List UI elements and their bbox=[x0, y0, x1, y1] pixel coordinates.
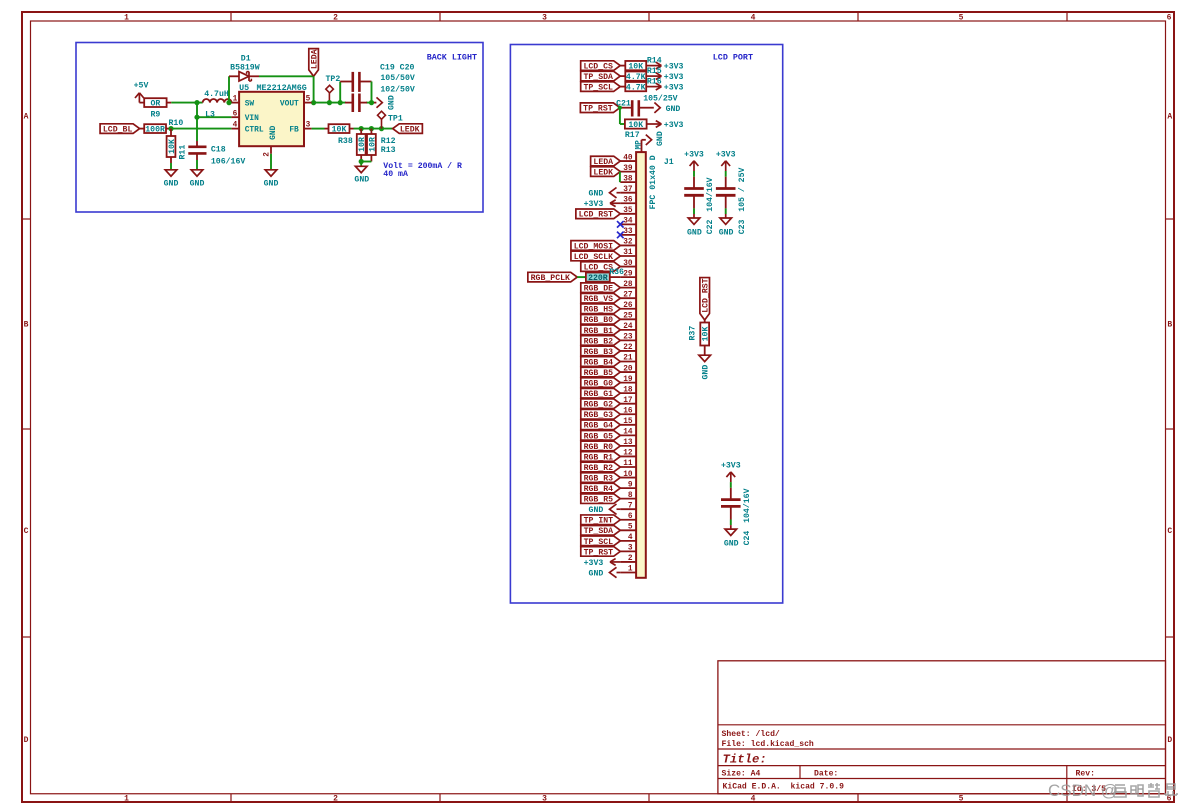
resistor R13 bbox=[370, 129, 372, 134]
power flag +3V3 bbox=[656, 62, 662, 65]
ground under C24 bbox=[725, 529, 737, 535]
hierarchical label TP_SCL bbox=[581, 536, 621, 546]
svg-text:RGB_G3: RGB_G3 bbox=[584, 411, 614, 420]
wire C19 branch bbox=[339, 82, 341, 103]
junction bbox=[327, 100, 332, 105]
pin 25 of J1 bbox=[620, 318, 636, 320]
svg-text:ME2212AM6G: ME2212AM6G bbox=[257, 83, 307, 93]
resistor R16 bbox=[625, 82, 646, 91]
svg-text:C19 C20: C19 C20 bbox=[380, 63, 414, 72]
svg-text:10R: 10R bbox=[368, 137, 377, 152]
svg-text:C: C bbox=[1167, 527, 1172, 536]
svg-text:R12: R12 bbox=[381, 137, 396, 146]
svg-text:7: 7 bbox=[628, 502, 633, 510]
wire bbox=[725, 171, 727, 177]
pin 19 of J1 bbox=[620, 382, 636, 384]
wire U5 GND bbox=[270, 154, 272, 170]
no-connect X bbox=[617, 232, 624, 239]
capacitor C21 bbox=[620, 107, 632, 109]
junction bbox=[359, 159, 364, 164]
pin 5 of J1 bbox=[620, 529, 636, 531]
svg-text:+3V3: +3V3 bbox=[716, 150, 736, 159]
hierarchical label RGB_B4 bbox=[581, 357, 621, 367]
svg-text:18: 18 bbox=[623, 386, 633, 394]
pin 10 of J1 bbox=[620, 477, 636, 479]
svg-text:12: 12 bbox=[623, 450, 633, 458]
svg-text:RGB_R1: RGB_R1 bbox=[584, 453, 614, 462]
pin 9 of J1 bbox=[620, 487, 636, 489]
svg-text:13: 13 bbox=[623, 439, 633, 447]
svg-text:+3V3: +3V3 bbox=[721, 461, 741, 470]
svg-text:TP_SDA: TP_SDA bbox=[584, 527, 614, 536]
svg-text:R36: R36 bbox=[609, 268, 624, 277]
resistor R15 bbox=[625, 71, 646, 80]
pin 24 of J1 bbox=[620, 329, 636, 331]
svg-text:37: 37 bbox=[623, 186, 633, 194]
svg-text:106/16V: 106/16V bbox=[211, 156, 245, 166]
svg-text:6: 6 bbox=[1167, 14, 1172, 23]
svg-text:104/16V: 104/16V bbox=[742, 488, 752, 522]
sheet LCD PORT box bbox=[510, 45, 782, 604]
hierarchical label LCD_RST (vertical) bbox=[700, 278, 710, 320]
wire bbox=[620, 75, 625, 77]
pin 26 of J1 bbox=[620, 308, 636, 310]
svg-text:GND: GND bbox=[190, 180, 205, 189]
hierarchical label LEDK bbox=[591, 167, 621, 177]
hierarchical label RGB_G0 bbox=[581, 378, 621, 388]
pin 38 of J1 bbox=[620, 181, 636, 183]
ground under C22 bbox=[688, 218, 700, 224]
hierarchical label RGB_G4 bbox=[581, 420, 621, 430]
svg-text:Date:: Date: bbox=[814, 770, 838, 779]
svg-text:B5819W: B5819W bbox=[230, 63, 260, 72]
power flag GND bbox=[610, 188, 617, 198]
hierarchical label RGB_B2 bbox=[581, 336, 621, 346]
hierarchical label LEDA bbox=[591, 156, 621, 166]
svg-text:D: D bbox=[24, 736, 29, 745]
svg-text:U5: U5 bbox=[239, 83, 249, 93]
resistor R9 bbox=[144, 98, 166, 107]
svg-text:RGB_VS: RGB_VS bbox=[584, 295, 614, 304]
pin 20 of J1 bbox=[620, 371, 636, 373]
svg-text:33: 33 bbox=[623, 228, 633, 236]
svg-text:KiCad E.D.A. kicad 7.0.9: KiCad E.D.A. kicad 7.0.9 bbox=[723, 783, 845, 792]
svg-text:+3V3: +3V3 bbox=[664, 73, 684, 82]
junction bbox=[194, 100, 199, 105]
pin 40 of J1 bbox=[620, 160, 636, 162]
svg-text:C22: C22 bbox=[706, 219, 715, 234]
svg-text:23: 23 bbox=[623, 334, 633, 342]
svg-text:+3V3: +3V3 bbox=[664, 84, 684, 93]
svg-text:GND: GND bbox=[724, 539, 739, 548]
svg-text:RGB_PCLK: RGB_PCLK bbox=[531, 274, 570, 283]
power flag +3V3 bbox=[656, 121, 662, 124]
wire bbox=[610, 276, 621, 278]
svg-text:4.7uH: 4.7uH bbox=[204, 90, 229, 99]
pin 18 of J1 bbox=[620, 392, 636, 394]
inductor L3 bbox=[203, 99, 232, 103]
capacitor C22 bbox=[693, 177, 695, 188]
svg-text:SW: SW bbox=[245, 100, 255, 109]
svg-text:22: 22 bbox=[623, 344, 633, 352]
svg-text:16: 16 bbox=[623, 407, 633, 415]
pin 34 of J1 bbox=[620, 223, 636, 225]
pin 6 bbox=[231, 116, 239, 118]
hierarchical label LCD_BL bbox=[100, 124, 140, 134]
wire LCD_BL to R10 bbox=[140, 128, 145, 130]
svg-text:RGB_R3: RGB_R3 bbox=[584, 474, 614, 483]
hierarchical label RGB_VS bbox=[581, 293, 621, 303]
pin 2 of J1 bbox=[620, 561, 636, 563]
svg-text:FPC 01x40 D: FPC 01x40 D bbox=[649, 155, 658, 209]
ground under C23 bbox=[720, 218, 732, 224]
power flag GND bbox=[610, 504, 617, 514]
svg-text:RGB_B3: RGB_B3 bbox=[584, 348, 614, 357]
hierarchical label RGB_DE bbox=[581, 283, 621, 293]
ground under U5 bbox=[265, 170, 277, 176]
svg-text:A: A bbox=[1167, 113, 1172, 122]
hierarchical label RGB_R1 bbox=[581, 452, 621, 462]
svg-text:105/25V: 105/25V bbox=[643, 94, 677, 104]
mounting pin MP to GND bbox=[641, 140, 643, 152]
no-connect X bbox=[617, 221, 624, 228]
capacitor C18 bbox=[196, 141, 198, 146]
resistor R37 bbox=[704, 320, 706, 323]
svg-text:RGB_R2: RGB_R2 bbox=[584, 464, 614, 473]
svg-text:LCD_BL: LCD_BL bbox=[103, 126, 133, 135]
svg-text:R17: R17 bbox=[625, 131, 640, 140]
svg-text:Title:: Title: bbox=[723, 753, 767, 767]
power flag GND bbox=[610, 567, 617, 577]
svg-text:4: 4 bbox=[751, 14, 756, 23]
hierarchical label TP_RST bbox=[581, 547, 621, 557]
capacitor C23 bbox=[725, 177, 727, 188]
svg-text:220R: 220R bbox=[588, 274, 608, 283]
wire bbox=[730, 482, 732, 488]
wire bbox=[577, 276, 586, 278]
svg-text:10K: 10K bbox=[628, 62, 643, 71]
svg-text:+3V3: +3V3 bbox=[584, 200, 604, 209]
pin 29 of J1 bbox=[620, 276, 636, 278]
hierarchical label RGB_R5 bbox=[581, 494, 621, 504]
svg-text:J1: J1 bbox=[664, 158, 674, 167]
ground under R12 bbox=[360, 162, 362, 167]
junction bbox=[311, 100, 316, 105]
svg-text:10K: 10K bbox=[702, 327, 711, 342]
svg-text:RGB_B4: RGB_B4 bbox=[584, 358, 614, 367]
junction bbox=[168, 126, 173, 131]
svg-text:3: 3 bbox=[306, 122, 311, 130]
svg-text:B: B bbox=[1167, 321, 1172, 330]
svg-text:29: 29 bbox=[623, 270, 633, 278]
pin 35 of J1 bbox=[620, 213, 636, 215]
svg-text:GND: GND bbox=[702, 365, 711, 380]
power flag +3V3 bbox=[656, 73, 662, 76]
svg-text:LEDA: LEDA bbox=[593, 158, 613, 167]
svg-text:10K: 10K bbox=[168, 139, 177, 154]
power flag +3V3 bbox=[610, 200, 616, 203]
svg-text:TP_SCL: TP_SCL bbox=[583, 84, 613, 93]
svg-text:VIN: VIN bbox=[245, 114, 259, 123]
wire bbox=[620, 86, 625, 88]
wire TP_RST down to R17 bbox=[619, 108, 621, 124]
svg-text:A: A bbox=[24, 113, 29, 122]
svg-text:TP_RST: TP_RST bbox=[583, 105, 613, 114]
op-amp U5 ME2212AM6G body bbox=[239, 92, 304, 146]
pin 2 bbox=[270, 146, 272, 154]
svg-text:3: 3 bbox=[628, 545, 633, 553]
hierarchical label RGB_B1 bbox=[581, 325, 621, 335]
svg-text:MP: MP bbox=[635, 140, 643, 150]
svg-text:FB: FB bbox=[289, 126, 299, 135]
hierarchical label RGB_G2 bbox=[581, 399, 621, 409]
watermark CSDN bbox=[1048, 781, 1177, 800]
hierarchical label LEDA bbox=[309, 49, 319, 77]
svg-text:3: 3 bbox=[542, 795, 547, 804]
pin 39 of J1 bbox=[620, 171, 636, 173]
pin 8 of J1 bbox=[620, 498, 636, 500]
svg-text:LEDK: LEDK bbox=[400, 126, 420, 135]
svg-text:27: 27 bbox=[623, 291, 633, 299]
svg-text:R9: R9 bbox=[150, 111, 160, 120]
wire to +3V3 bbox=[646, 65, 661, 67]
svg-text:Rev:: Rev: bbox=[1076, 770, 1095, 779]
wire bbox=[693, 171, 695, 177]
hierarchical label TP_SDA bbox=[581, 71, 621, 81]
svg-text:28: 28 bbox=[623, 281, 633, 289]
svg-text:RGB_R4: RGB_R4 bbox=[584, 485, 614, 494]
svg-text:C18: C18 bbox=[211, 145, 226, 154]
svg-text:20: 20 bbox=[623, 365, 633, 373]
wire to +3V3 bbox=[646, 75, 661, 77]
svg-text:30: 30 bbox=[623, 260, 633, 268]
pin 6 of J1 bbox=[620, 519, 636, 521]
svg-text:GND: GND bbox=[656, 131, 665, 146]
svg-text:R13: R13 bbox=[381, 146, 396, 155]
svg-text:GND: GND bbox=[687, 228, 702, 237]
wire SW node down bbox=[196, 103, 198, 141]
svg-text:RGB_B2: RGB_B2 bbox=[584, 337, 614, 346]
wire R11 to gnd bbox=[170, 163, 172, 170]
svg-text:B: B bbox=[24, 321, 29, 330]
svg-text:9: 9 bbox=[628, 481, 633, 489]
hierarchical label TP_SCL bbox=[581, 82, 621, 92]
svg-text:GND: GND bbox=[354, 175, 369, 184]
pin 21 of J1 bbox=[620, 361, 636, 363]
svg-text:+3V3: +3V3 bbox=[584, 559, 604, 568]
diode D1 B5819W bbox=[239, 72, 249, 81]
svg-text:RGB_B5: RGB_B5 bbox=[584, 369, 614, 378]
svg-text:CSDN @: CSDN @ bbox=[1048, 781, 1118, 800]
svg-text:24: 24 bbox=[623, 323, 633, 331]
pin 30 of J1 bbox=[620, 266, 636, 268]
junction bbox=[359, 126, 364, 131]
connector J1 FPC 01x40 body bbox=[636, 152, 646, 578]
capacitor C24 bbox=[730, 488, 732, 499]
svg-text:5: 5 bbox=[306, 96, 311, 104]
resistor R14 bbox=[625, 61, 646, 70]
svg-text:5: 5 bbox=[959, 795, 964, 804]
svg-text:TP2: TP2 bbox=[326, 75, 341, 84]
pin 13 of J1 bbox=[620, 445, 636, 447]
svg-text:4: 4 bbox=[751, 795, 756, 804]
wire bbox=[725, 208, 727, 214]
pin 28 of J1 bbox=[620, 287, 636, 289]
hierarchical label RGB_B5 bbox=[581, 367, 621, 377]
svg-text:D: D bbox=[1167, 736, 1172, 745]
svg-text:11: 11 bbox=[623, 460, 633, 468]
svg-text:10: 10 bbox=[623, 471, 633, 479]
wire D1 to LEDA bbox=[259, 75, 314, 77]
wire to +3V3 bbox=[646, 86, 661, 88]
svg-text:105/50V: 105/50V bbox=[380, 73, 414, 83]
svg-text:1: 1 bbox=[124, 14, 129, 23]
svg-text:102/50V: 102/50V bbox=[380, 84, 414, 94]
svg-text:6: 6 bbox=[628, 513, 633, 521]
wire +5V to R9 bbox=[139, 102, 144, 104]
hierarchical label RGB_PCLK bbox=[528, 272, 577, 282]
svg-text:3: 3 bbox=[542, 14, 547, 23]
svg-text:25: 25 bbox=[623, 313, 633, 321]
svg-text:LCD PORT: LCD PORT bbox=[713, 53, 753, 63]
wire LEDA down to VOUT bbox=[313, 76, 315, 102]
svg-text:GND: GND bbox=[164, 180, 179, 189]
svg-text:4: 4 bbox=[233, 122, 238, 130]
svg-text:+3V3: +3V3 bbox=[684, 150, 704, 159]
resistor R17 bbox=[625, 119, 647, 128]
hierarchical label LCD_CS bbox=[581, 262, 621, 272]
svg-text:LCD_CS: LCD_CS bbox=[583, 63, 613, 72]
svg-text:5: 5 bbox=[959, 14, 964, 23]
svg-text:105 / 25V: 105 / 25V bbox=[737, 167, 747, 211]
pin 5 bbox=[304, 102, 312, 104]
svg-text:40 mA: 40 mA bbox=[383, 170, 408, 179]
resistor R36 (220R highlighted) bbox=[587, 273, 609, 282]
svg-text:10K: 10K bbox=[332, 125, 347, 134]
wire FB net bbox=[312, 128, 325, 130]
hierarchical label LEDK bbox=[393, 124, 423, 134]
sheet BACK LIGHT box bbox=[76, 43, 483, 213]
svg-text:File: lcd.kicad_sch: File: lcd.kicad_sch bbox=[722, 740, 814, 749]
svg-text:35: 35 bbox=[623, 207, 633, 215]
svg-text:C24: C24 bbox=[743, 531, 752, 546]
hierarchical label TP_INT bbox=[581, 515, 621, 525]
svg-text:6: 6 bbox=[233, 110, 238, 118]
pin 3 bbox=[304, 128, 312, 130]
pin 31 of J1 bbox=[620, 255, 636, 257]
svg-text:2: 2 bbox=[333, 14, 338, 23]
svg-text:38: 38 bbox=[623, 175, 633, 183]
pin 1 of J1 bbox=[620, 572, 636, 574]
pin 33 of J1 bbox=[620, 234, 636, 236]
svg-text:LCD_MOSI: LCD_MOSI bbox=[574, 242, 613, 251]
svg-text:GND: GND bbox=[589, 569, 604, 578]
wire VIN bbox=[197, 116, 231, 118]
svg-text:GND: GND bbox=[589, 506, 604, 515]
svg-text:4.7K: 4.7K bbox=[626, 73, 646, 82]
hierarchical label RGB_B0 bbox=[581, 315, 621, 325]
test point TP2 bbox=[328, 93, 330, 103]
svg-text:8: 8 bbox=[628, 492, 633, 500]
wire bbox=[730, 520, 732, 526]
wire VOUT net bbox=[312, 102, 346, 104]
svg-text:C: C bbox=[24, 527, 29, 536]
svg-text:4.7K: 4.7K bbox=[626, 83, 646, 92]
svg-text:10R: 10R bbox=[358, 137, 367, 152]
resistor R11 bbox=[170, 129, 172, 136]
pin 27 of J1 bbox=[620, 297, 636, 299]
svg-text:LCD_RST: LCD_RST bbox=[702, 278, 711, 312]
hierarchical label RGB_G3 bbox=[581, 409, 621, 419]
svg-text:LEDK: LEDK bbox=[593, 169, 613, 178]
junction bbox=[338, 100, 343, 105]
svg-text:RGB_G2: RGB_G2 bbox=[584, 401, 614, 410]
resistor R10 bbox=[144, 124, 166, 133]
capacitor C20 bbox=[351, 94, 354, 113]
hierarchical label RGB_G1 bbox=[581, 388, 621, 398]
svg-text:TP_SCL: TP_SCL bbox=[584, 538, 614, 547]
pin 22 of J1 bbox=[620, 350, 636, 352]
pin 37 of J1 bbox=[620, 192, 636, 194]
svg-text:40: 40 bbox=[623, 154, 633, 162]
svg-text:2: 2 bbox=[628, 555, 633, 563]
svg-text:4: 4 bbox=[628, 534, 633, 542]
svg-text:1: 1 bbox=[628, 566, 633, 574]
hierarchical label RGB_R4 bbox=[581, 483, 621, 493]
wire SW up to D1 bbox=[228, 76, 230, 102]
hierarchical label RGB_B3 bbox=[581, 346, 621, 356]
svg-text:26: 26 bbox=[623, 302, 633, 310]
wire C18 to gnd bbox=[196, 160, 198, 170]
pin 4 bbox=[231, 128, 239, 130]
svg-text:D1: D1 bbox=[241, 54, 251, 63]
svg-text:21: 21 bbox=[623, 355, 633, 363]
svg-text:RGB_R5: RGB_R5 bbox=[584, 496, 614, 505]
junction bbox=[379, 126, 384, 131]
svg-text:RGB_HS: RGB_HS bbox=[584, 306, 614, 315]
wire R10 to CTRL bbox=[166, 128, 170, 130]
svg-text:R38: R38 bbox=[338, 137, 353, 146]
junction bbox=[369, 126, 374, 131]
svg-text:1: 1 bbox=[124, 795, 129, 804]
pin 11 of J1 bbox=[620, 466, 636, 468]
test point TP1 bbox=[381, 119, 383, 128]
svg-text:RGB_R0: RGB_R0 bbox=[584, 443, 614, 452]
svg-text:RGB_G4: RGB_G4 bbox=[584, 422, 614, 431]
junction bbox=[194, 115, 199, 120]
hierarchical label RGB_R0 bbox=[581, 441, 621, 451]
svg-text:Sheet: /lcd/: Sheet: /lcd/ bbox=[722, 730, 780, 739]
svg-text:TP_RST: TP_RST bbox=[584, 548, 614, 557]
svg-text:GND: GND bbox=[589, 190, 604, 199]
svg-text:RGB_G0: RGB_G0 bbox=[584, 380, 614, 389]
hierarchical label TP_SDA bbox=[581, 526, 621, 536]
svg-text:19: 19 bbox=[623, 376, 633, 384]
hierarchical label LCD_CS bbox=[581, 61, 621, 71]
svg-text:1: 1 bbox=[233, 96, 238, 104]
pin 17 of J1 bbox=[620, 403, 636, 405]
svg-text:39: 39 bbox=[623, 165, 633, 173]
resistor R38 bbox=[329, 124, 350, 133]
svg-text:LCD_RST: LCD_RST bbox=[579, 211, 613, 220]
svg-text:15: 15 bbox=[623, 418, 633, 426]
svg-text:32: 32 bbox=[623, 239, 633, 247]
svg-text:GND: GND bbox=[264, 180, 279, 189]
svg-text:100R: 100R bbox=[145, 125, 165, 134]
svg-text:CTRL: CTRL bbox=[245, 126, 264, 135]
svg-text:5: 5 bbox=[628, 524, 633, 532]
svg-text:TP_SDA: TP_SDA bbox=[583, 73, 613, 82]
